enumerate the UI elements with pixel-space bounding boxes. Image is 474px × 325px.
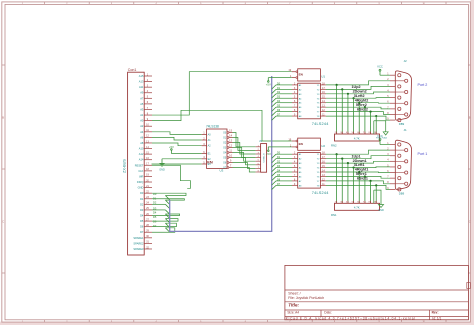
- connector J3 select header body: [261, 144, 267, 173]
- svg-text:A4: A4: [140, 130, 144, 134]
- tap to RN1: [336, 154, 338, 203]
- svg-text:CLK: CLK: [138, 169, 143, 173]
- svg-text:74LS138: 74LS138: [206, 124, 219, 128]
- bus entry + wire D6 -> U2: [272, 181, 276, 185]
- svg-text:A1: A1: [140, 113, 144, 117]
- U3 74LS138 body: [207, 129, 227, 169]
- bus entry + wire D0 -> U2: [272, 154, 276, 158]
- svg-text:B: B: [469, 116, 471, 120]
- U1 channel 2 pins: [292, 88, 298, 90]
- junction: [375, 184, 377, 186]
- svg-text:3Left1: 3Left1: [354, 163, 365, 167]
- svg-text:RN1: RN1: [331, 213, 337, 217]
- svg-text:D3: D3: [153, 206, 157, 210]
- border ticks top/bottom: [44, 2, 46, 5]
- U1 channel 3 pins: [292, 93, 298, 95]
- bus entry D6: [165, 223, 169, 227]
- svg-text:6Slct1: 6Slct1: [357, 177, 368, 181]
- U1 channel 8 pins: [292, 115, 298, 117]
- junction: [358, 102, 360, 104]
- tap to RN2: [370, 112, 372, 134]
- svg-text:A3: A3: [140, 107, 144, 111]
- svg-text:C: C: [469, 220, 471, 224]
- svg-text:74LS244: 74LS244: [312, 191, 329, 195]
- svg-text:DB9: DB9: [399, 122, 405, 126]
- RN2 common pin to GND: [373, 121, 375, 134]
- svg-text:File: Joystick PortLatch: File: Joystick PortLatch: [288, 296, 324, 300]
- svg-text:A7: A7: [140, 96, 144, 100]
- svg-text:+5V: +5V: [266, 152, 271, 156]
- svg-text:A12: A12: [139, 152, 144, 156]
- U1 channel 7 pins: [292, 111, 298, 113]
- connector J1 DB9 body: [395, 140, 411, 189]
- RN2 pin stubs: [336, 132, 338, 134]
- Con1 pins: [144, 75, 152, 77]
- resistor network RN2 body: [335, 134, 380, 141]
- tap to RN1: [358, 172, 360, 203]
- svg-text:GND: GND: [378, 209, 384, 212]
- svg-text:2Down1: 2Down1: [353, 159, 367, 163]
- junction: [375, 115, 377, 117]
- svg-text:EN: EN: [299, 142, 303, 146]
- svg-text:A6: A6: [140, 135, 144, 139]
- svg-text:4.7K: 4.7K: [354, 206, 360, 210]
- svg-text:A11: A11: [139, 85, 144, 89]
- svg-text:D6: D6: [153, 220, 157, 224]
- U3 output pins O0..O7: [227, 132, 229, 134]
- tap to RN1: [370, 181, 372, 203]
- svg-text:4Right2: 4Right2: [355, 98, 369, 102]
- junction: [364, 175, 366, 177]
- svg-text:5Fire2: 5Fire2: [356, 103, 367, 107]
- svg-text:Rev:: Rev:: [432, 311, 439, 315]
- junction: [341, 158, 343, 160]
- resistor network RN1 body: [335, 203, 380, 210]
- svg-text:D0: D0: [153, 192, 157, 196]
- wires Con1 -> U3 address inputs A0..A2: [152, 132, 202, 135]
- +5V power symbol at U2 pin1: [267, 147, 269, 150]
- U1 channel 6 pins: [292, 106, 298, 108]
- GND arrow symbol: [378, 205, 383, 208]
- wire Con1 pin8 -> U1 EN (pin19): [152, 72, 292, 115]
- wire +5V -> U3 E1: [171, 153, 201, 155]
- svg-text:A14: A14: [139, 158, 144, 162]
- svg-text:D2: D2: [153, 201, 157, 205]
- title block frame: [285, 265, 469, 319]
- svg-text:Size: A4: Size: A4: [287, 311, 299, 315]
- svg-text:D1: D1: [140, 197, 144, 201]
- tap to RN2: [336, 85, 338, 134]
- tap to RN1: [353, 168, 355, 204]
- J1 pins 1-9: [390, 144, 395, 146]
- bus entry + wire D4 -> U1: [272, 103, 276, 107]
- tap to RN1: [364, 176, 366, 203]
- svg-text:D5: D5: [140, 219, 144, 223]
- svg-text:A8: A8: [140, 141, 144, 145]
- svg-text:Port 2: Port 2: [418, 83, 428, 87]
- bus entry + wire D2 -> U2: [272, 163, 276, 167]
- U1 enable pins 19 and 1: [296, 71, 298, 73]
- svg-text:4.7K: 4.7K: [354, 136, 360, 140]
- svg-text:3Left2: 3Left2: [354, 94, 365, 98]
- svg-text:D7: D7: [140, 230, 144, 234]
- tap to RN2: [347, 94, 349, 134]
- U2 enable pins 19 and 1: [296, 140, 298, 142]
- svg-text:D4: D4: [153, 210, 157, 214]
- svg-text:C: C: [2, 220, 4, 224]
- data wires D0..D7 with labels and bus entries: [152, 193, 186, 195]
- wire GND -> U3 E2: [162, 158, 202, 160]
- svg-text:Id: 1/1: Id: 1/1: [432, 316, 441, 320]
- svg-text:D1: D1: [153, 197, 157, 201]
- output wires U2 -> DB9 J1: [326, 150, 390, 154]
- bus entry + wire D3 -> U1: [272, 98, 276, 102]
- wire +5V -> U1 pin1: [268, 77, 291, 79]
- RN1 pin stubs: [336, 201, 338, 203]
- svg-text:D3: D3: [140, 208, 144, 212]
- bus entry + wire D6 -> U1: [272, 112, 276, 116]
- wire Con1 pin9 -> U2 EN (pin19): [152, 110, 292, 141]
- svg-text:GND: GND: [138, 186, 144, 190]
- bus entry D3: [165, 210, 169, 214]
- wire U3 E3: [152, 163, 202, 165]
- svg-text:A13: A13: [139, 80, 144, 84]
- junction: [347, 162, 349, 164]
- svg-text:D0: D0: [140, 191, 144, 195]
- connector J2 DB9 body: [395, 71, 411, 120]
- svg-text:D2: D2: [140, 202, 144, 206]
- svg-text:5Fire1: 5Fire1: [356, 172, 367, 176]
- bus entry + wire D5 -> U1: [272, 107, 276, 111]
- U2 channel 8 pins: [292, 184, 298, 186]
- svg-text:Con1: Con1: [128, 68, 137, 72]
- svg-text:Date:: Date:: [324, 311, 332, 315]
- wires U3 outputs -> J3 header: [233, 133, 256, 147]
- tap to RN2: [358, 103, 360, 134]
- output wires U1 -> DB9 J2: [326, 81, 390, 85]
- wire +5V -> U2 pin1: [268, 146, 291, 148]
- junction: [369, 111, 371, 113]
- tap to RN2: [364, 107, 366, 134]
- svg-text:J1: J1: [404, 128, 408, 132]
- bus entry D2: [165, 204, 169, 208]
- svg-text:A2: A2: [140, 124, 144, 128]
- U2 channel 6 pins: [292, 175, 298, 177]
- svg-text:J2: J2: [404, 59, 408, 63]
- wire VCC -> J1 pin1: [380, 144, 390, 146]
- tap to RN2: [375, 116, 377, 134]
- junction: [352, 97, 354, 99]
- right border sheet marker box: [467, 283, 471, 289]
- junction: [352, 166, 354, 168]
- U2 channel 7 pins: [292, 180, 298, 182]
- bus entry + wire D5 -> U2: [272, 176, 276, 180]
- bus entry + wire D7 -> U2: [272, 185, 276, 189]
- svg-text:WR: WR: [139, 174, 143, 178]
- bus entry + wire D2 -> U1: [272, 94, 276, 98]
- bus entry + wire D7 -> U1: [272, 116, 276, 120]
- RN1 common pin to GND: [373, 190, 375, 203]
- bus entry D5: [165, 219, 169, 223]
- U1 74LS244 main body: [298, 83, 321, 119]
- svg-text:U1: U1: [321, 75, 325, 79]
- op buffer U2 74LS244 enable section: [298, 138, 321, 150]
- svg-text:74LS244: 74LS244: [312, 122, 329, 126]
- bus entry + wire D4 -> U2: [272, 172, 276, 176]
- page outer margin bands: [471, 0, 474, 325]
- svg-text:+5V: +5V: [169, 145, 174, 149]
- svg-text:DB9: DB9: [399, 192, 405, 196]
- svg-text:SPARE2: SPARE2: [133, 241, 144, 245]
- svg-text:4Right1: 4Right1: [355, 168, 369, 172]
- U1 channel 5 pins: [292, 102, 298, 104]
- junction: [341, 88, 343, 90]
- bus entry + wire D1 -> U1: [272, 89, 276, 93]
- GND symbol at U3 E2: [161, 159, 163, 164]
- U1 channel 1 pins: [292, 84, 298, 86]
- tap to RN1: [341, 159, 343, 204]
- svg-text:A9: A9: [140, 91, 144, 95]
- bus entry + wire D3 -> U2: [272, 168, 276, 172]
- J3 pins: [256, 146, 261, 148]
- op buffer U1 74LS244 enable section: [298, 69, 321, 81]
- U2 74LS244 main body: [298, 153, 321, 189]
- wire VCC -> J2 pin1: [380, 74, 390, 76]
- bus entry D1: [165, 200, 169, 204]
- +5V power symbol at U3 E1: [170, 150, 172, 153]
- svg-text:IORQ: IORQ: [137, 180, 144, 184]
- bus entry + wire D0 -> U1: [272, 85, 276, 89]
- svg-text:D5: D5: [153, 215, 157, 219]
- junction: [358, 171, 360, 173]
- U3 left pins: [202, 133, 207, 135]
- svg-text:EN: EN: [299, 73, 303, 77]
- U1 channel 4 pins: [292, 97, 298, 99]
- junction: [364, 106, 366, 108]
- tap to RN2: [353, 98, 355, 134]
- svg-text:+5V: +5V: [266, 83, 271, 87]
- svg-text:J3: J3: [259, 139, 262, 143]
- tap to RN1: [347, 163, 349, 203]
- wire Con1 RESET row: [152, 165, 191, 188]
- svg-text:KiCad E.D.A. kicad 4.0.7+e1+6: KiCad E.D.A. kicad 4.0.7+e1+6297~38~ubun…: [286, 316, 416, 320]
- svg-text:D7: D7: [153, 224, 157, 228]
- svg-text:SPARE1: SPARE1: [133, 236, 144, 240]
- svg-text:VCC: VCC: [377, 65, 383, 69]
- U2 channel 5 pins: [292, 171, 298, 173]
- svg-text:2Down2: 2Down2: [353, 89, 367, 93]
- svg-text:RN2: RN2: [331, 144, 337, 148]
- svg-text:U2: U2: [321, 144, 325, 148]
- svg-text:1Up2: 1Up2: [352, 85, 361, 89]
- bus entry D4: [165, 214, 169, 218]
- svg-text:Title:: Title:: [288, 303, 299, 308]
- tap to RN1: [375, 185, 377, 203]
- bus BD[0..7]: [170, 76, 272, 231]
- bus entry D7: [165, 228, 169, 232]
- svg-text:B: B: [2, 116, 4, 120]
- svg-text:A5: A5: [140, 102, 144, 106]
- svg-text:D4: D4: [140, 214, 144, 218]
- junction: [369, 180, 371, 182]
- svg-text:A0: A0: [140, 119, 144, 123]
- U2 channel 4 pins: [292, 167, 298, 169]
- tap to RN2: [341, 89, 343, 134]
- +5V power symbol at U1 pin1: [267, 78, 269, 81]
- svg-text:1Up1: 1Up1: [352, 154, 361, 158]
- junction: [336, 84, 338, 86]
- svg-text:6Slct2: 6Slct2: [357, 107, 368, 111]
- J2 pins 1-9: [390, 74, 395, 76]
- svg-text:A10: A10: [139, 147, 144, 151]
- border ticks left/right + letters: [2, 64, 5, 66]
- U2 channel 1 pins: [292, 153, 298, 155]
- junction: [347, 93, 349, 95]
- svg-text:Sheet: /: Sheet: /: [288, 291, 300, 295]
- U2 channel 2 pins: [292, 158, 298, 160]
- svg-text:ZX-BUS: ZX-BUS: [122, 159, 126, 173]
- svg-text:SPARE3: SPARE3: [133, 247, 144, 251]
- svg-text:RESET: RESET: [135, 163, 144, 167]
- svg-text:GND: GND: [159, 168, 165, 171]
- junction: [336, 153, 338, 155]
- connector Con1 (ZX-BUS) body: [128, 72, 145, 255]
- svg-text:D6: D6: [140, 225, 144, 229]
- bus entry D0: [165, 196, 169, 200]
- svg-text:A15: A15: [139, 74, 144, 78]
- bus entry + wire D1 -> U2: [272, 159, 276, 163]
- U2 channel 3 pins: [292, 162, 298, 164]
- GND arrow symbol: [383, 132, 388, 135]
- svg-text:VCC: VCC: [377, 134, 383, 138]
- svg-text:Port 1: Port 1: [418, 152, 428, 156]
